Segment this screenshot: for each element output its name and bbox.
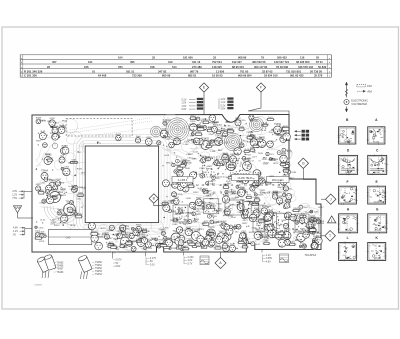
svg-text:4K72: 4K72 (156, 247, 162, 249)
wire from diamond B (154, 203, 167, 206)
transistor Q298 (39, 131, 46, 140)
svg-text:R333: R333 (260, 205, 266, 207)
IC module U2 outline (233, 159, 250, 174)
resistor R310 (207, 231, 215, 235)
capacitor C378 (287, 170, 297, 174)
resistor R317 (37, 190, 45, 194)
capacitor C338 (312, 232, 321, 235)
svg-text:R316: R316 (260, 231, 266, 233)
capacitor C384 (239, 178, 249, 182)
transistor Q362 (218, 231, 225, 239)
svg-text:TS47: TS47 (170, 220, 176, 222)
svg-text:8F195: 8F195 (345, 230, 350, 232)
transistor Q345 (178, 240, 184, 246)
transistor Q340 (179, 236, 185, 242)
transistor Q208 (272, 192, 278, 199)
svg-text:R344: R344 (285, 201, 291, 203)
svg-text:c: c (341, 130, 342, 132)
transistor Q72 (178, 207, 184, 213)
svg-text:C313: C313 (210, 239, 216, 241)
svg-text:e: e (370, 246, 371, 248)
resistor R329 (238, 126, 246, 130)
svg-text:C302: C302 (39, 227, 45, 229)
solder pad (279, 172, 280, 173)
svg-text:4K70: 4K70 (36, 184, 42, 186)
svg-text:G: G (376, 208, 379, 212)
resistor R342 (135, 239, 143, 243)
transistor case drawing group 2 (78, 255, 93, 279)
svg-text:C317: C317 (241, 141, 247, 143)
solder pad (117, 238, 118, 239)
svg-text:2n27: 2n27 (200, 201, 206, 203)
resistor R355 (238, 189, 247, 193)
transistor TS462 (243, 160, 252, 171)
svg-text:C327: C327 (55, 195, 61, 197)
svg-text:4.15V: 4.15V (188, 257, 194, 259)
svg-text:R314: R314 (45, 154, 51, 156)
svg-text:C317: C317 (263, 163, 269, 165)
svg-text:0L41: 0L41 (40, 220, 46, 222)
svg-text:4.6V: 4.6V (266, 261, 271, 263)
svg-text:5V: 5V (150, 261, 153, 263)
resistor R359 (282, 163, 291, 167)
svg-text:C314: C314 (168, 184, 174, 186)
svg-text:346 578 133: 346 578 133 (298, 65, 313, 69)
solder pad (187, 212, 188, 213)
svg-text:R314: R314 (48, 158, 54, 160)
table values row 3 (47, 65, 327, 69)
svg-text:T: T (329, 234, 331, 238)
transistor Q351 (242, 239, 247, 244)
transistor Q106 (264, 224, 270, 230)
resistor R340 (262, 241, 270, 245)
svg-text:2n27: 2n27 (190, 135, 196, 137)
transistor Q286 (62, 145, 69, 154)
resistor R332 (232, 225, 240, 229)
resistor R379 (171, 184, 178, 188)
svg-text:192 327: 192 327 (232, 60, 242, 64)
capacitor C344 (266, 152, 275, 156)
resistor R369 (202, 221, 211, 225)
IC module U9 outline (295, 214, 309, 232)
transistor Q3 (209, 115, 216, 122)
transistor Q214 (267, 224, 274, 231)
svg-text:TS455: TS455 (57, 263, 64, 265)
capacitor C369 (131, 227, 141, 230)
resistor R302 (205, 144, 213, 148)
svg-text:10p7: 10p7 (227, 183, 233, 185)
svg-text:G: G (302, 162, 305, 166)
wire from diamond E (203, 92, 205, 114)
transistor Q175 (249, 213, 257, 222)
capacitor C349 (156, 243, 166, 247)
svg-text:R326: R326 (190, 121, 196, 123)
capacitor C386 (206, 231, 216, 234)
svg-text:1.1V: 1.1V (266, 255, 271, 257)
svg-text:0.67V: 0.67V (116, 260, 122, 262)
svg-text:148 325: 148 325 (212, 65, 222, 69)
transistor Q277 (45, 189, 49, 193)
svg-text:4K73: 4K73 (100, 228, 106, 230)
solder pad (97, 142, 98, 143)
capacitor C336 (277, 151, 287, 155)
svg-text:C301: C301 (290, 242, 296, 244)
resistor R332 (292, 208, 301, 212)
transistor TS477 (309, 225, 317, 234)
wire from diamond T (321, 235, 325, 237)
svg-text:S189: S189 (216, 211, 222, 213)
transistor Q337 (135, 136, 141, 143)
svg-text:L300: L300 (70, 189, 76, 191)
resistor R382 (215, 234, 224, 238)
svg-text:752 534: 752 534 (212, 60, 222, 64)
transistor Q234 (88, 223, 93, 229)
svg-text:0.2V: 0.2V (221, 105, 226, 107)
solder pad (248, 208, 249, 209)
capacitor C349 (299, 245, 307, 248)
svg-text:0L49: 0L49 (278, 224, 284, 226)
capacitor C347 (188, 220, 198, 224)
resistor R362 (250, 202, 259, 206)
transistor Q375 (209, 239, 215, 246)
capacitor C386 (210, 220, 220, 224)
svg-text:L309: L309 (61, 188, 67, 190)
svg-text:R320: R320 (212, 216, 218, 218)
legend electronic voltmeter symbol (344, 98, 368, 106)
solder pad (224, 125, 225, 126)
solder pad (234, 176, 235, 177)
solder pad (110, 243, 111, 244)
svg-text:C308: C308 (257, 138, 263, 140)
svg-text:L308: L308 (187, 140, 193, 142)
svg-text:47K9: 47K9 (39, 241, 45, 243)
transistor Q311 (311, 241, 319, 250)
capacitor C383 (197, 201, 207, 204)
solder pad (169, 244, 170, 245)
transistor Q338 (116, 134, 122, 141)
svg-text:S185: S185 (173, 183, 179, 185)
svg-text:8F18: 8F18 (240, 210, 246, 212)
svg-text:S184: S184 (125, 229, 131, 231)
resistor R347 (252, 144, 261, 148)
solder pad (77, 151, 78, 152)
solder pad (181, 248, 182, 249)
solder pad (176, 179, 177, 180)
transistor TSL062 (192, 230, 201, 241)
solder pad (226, 121, 227, 122)
solder pad (192, 183, 193, 184)
solder pad (152, 245, 153, 246)
resistor R387 (175, 245, 182, 249)
svg-text:R318: R318 (216, 245, 222, 247)
svg-text:0L40: 0L40 (259, 235, 265, 237)
svg-text:C315: C315 (163, 228, 169, 230)
svg-text:S184: S184 (50, 118, 56, 120)
resistor R317 (194, 131, 203, 135)
transistor Q76 (276, 196, 283, 204)
svg-text:1.2V: 1.2V (188, 260, 193, 262)
resistor R308 (255, 138, 264, 142)
svg-text:64 468: 64 468 (98, 74, 107, 78)
resistor R346 (202, 120, 210, 124)
transistor Q360 (163, 239, 169, 245)
wire from diamond F (248, 92, 289, 114)
svg-text:F: F (260, 86, 262, 90)
svg-text:0L48: 0L48 (223, 211, 229, 213)
table row label column (21, 58, 331, 78)
svg-text:L301: L301 (184, 220, 190, 222)
svg-text:0L44: 0L44 (250, 213, 256, 215)
transistor Q274 (55, 179, 61, 186)
test point diamond T (325, 231, 336, 242)
svg-text:4K73: 4K73 (193, 126, 199, 128)
resistor R323 (124, 240, 133, 244)
svg-text:S184: S184 (56, 179, 62, 181)
svg-text:TS456: TS456 (57, 266, 64, 268)
solder pad (191, 139, 192, 140)
table values row 1 (118, 56, 319, 60)
resistor R353 (245, 195, 253, 199)
capacitor C333 (229, 225, 239, 229)
svg-text:C312: C312 (76, 199, 82, 201)
resistor R342 (227, 163, 236, 167)
svg-text:C303: C303 (52, 126, 58, 128)
resistor R321 (181, 246, 190, 250)
transistor Q126 (175, 175, 182, 183)
svg-text:C321: C321 (218, 138, 224, 140)
legend FM dashed box (357, 84, 372, 88)
connector pin block below diamond E (197, 98, 203, 110)
svg-text:88 95 015: 88 95 015 (232, 65, 244, 69)
svg-text:2n23: 2n23 (254, 204, 260, 206)
svg-text:C317: C317 (180, 163, 186, 165)
svg-text:TS450: TS450 (95, 262, 102, 264)
solder pad (152, 238, 153, 239)
svg-text:310: 310 (168, 60, 173, 64)
transistor Q373 (202, 238, 209, 246)
transistor Q257 (61, 213, 68, 222)
transistor Q237 (129, 233, 134, 238)
svg-text:47K4: 47K4 (233, 227, 239, 229)
svg-text:8C548: 8C548 (374, 201, 380, 203)
svg-text:R324: R324 (287, 151, 293, 153)
voltage bracket below board at x112 (112, 252, 122, 268)
svg-text:TS40: TS40 (81, 188, 87, 190)
svg-text:c: c (355, 159, 356, 161)
svg-text:J: J (330, 197, 332, 201)
resistor R381 (51, 195, 59, 199)
svg-text:S188: S188 (170, 200, 176, 202)
svg-text:347 82: 347 82 (158, 69, 167, 73)
svg-text:TS41: TS41 (246, 155, 252, 157)
solder pad (47, 178, 48, 179)
svg-text:TS43: TS43 (216, 204, 222, 206)
transistor Q284 (35, 231, 41, 237)
svg-text:8F16: 8F16 (70, 225, 76, 227)
capacitor C309 (282, 148, 292, 152)
solder pad (46, 195, 47, 196)
transistor Q168 (234, 148, 242, 156)
svg-text:1: 1 (331, 219, 333, 223)
transistor Q63 (278, 238, 286, 247)
svg-text:b: b (382, 189, 383, 191)
svg-text:R313: R313 (48, 121, 54, 123)
transistor Q384 (141, 236, 147, 244)
transistor Q56 (260, 177, 266, 183)
transistor Q11 (212, 126, 218, 132)
capacitor C388 (75, 213, 83, 216)
parts value table frame (20, 55, 331, 78)
component pinout square L (338, 236, 358, 261)
svg-text:2n27: 2n27 (209, 214, 215, 216)
svg-text:8F195: 8F195 (374, 258, 379, 260)
transistor Q294 (49, 118, 56, 126)
test point diamond G (298, 158, 308, 168)
svg-text:22n0: 22n0 (102, 233, 108, 235)
capacitor C385 (164, 236, 174, 240)
svg-text:5.7V: 5.7V (188, 263, 193, 265)
svg-text:341 16: 341 16 (192, 60, 201, 64)
svg-text:L306: L306 (210, 151, 216, 153)
transistor Q184 (285, 238, 291, 245)
capacitor C302 (202, 189, 212, 192)
svg-text:181 600: 181 600 (183, 56, 193, 60)
svg-text:L304: L304 (264, 124, 270, 126)
solder pad number strip 2 (206, 192, 286, 195)
svg-text:8C548: 8C548 (374, 141, 380, 143)
svg-text:4K75: 4K75 (282, 134, 288, 136)
svg-text:R310: R310 (39, 190, 45, 192)
solder pad (251, 131, 252, 132)
transistor Q240 (88, 223, 95, 230)
transistor TS470 (207, 227, 216, 238)
svg-text:TS453: TS453 (95, 271, 102, 273)
transistor Q160 (238, 188, 245, 197)
svg-text:495: 495 (130, 60, 135, 64)
svg-text:R333: R333 (284, 217, 290, 219)
svg-text:c: c (353, 130, 354, 132)
svg-text:1.6V: 1.6V (182, 106, 187, 108)
svg-text:11 656: 11 656 (216, 69, 225, 73)
svg-text:S180: S180 (291, 172, 297, 174)
svg-text:C309: C309 (260, 190, 266, 192)
capacitor C325 (155, 238, 165, 241)
svg-text:TS454: TS454 (95, 274, 102, 276)
transistor Q118 (162, 180, 169, 187)
svg-text:S185: S185 (279, 203, 285, 205)
resistor R333 (196, 126, 205, 130)
svg-text:22n4: 22n4 (209, 134, 215, 136)
transistor TS451 (258, 138, 266, 148)
test point diamond J (326, 194, 336, 204)
transistor TS472 (239, 233, 248, 243)
svg-text:R311: R311 (300, 228, 306, 230)
svg-text:R311: R311 (213, 124, 219, 126)
solder pad (251, 185, 252, 186)
voltage labels upper left group (12, 190, 32, 200)
svg-text:4K78: 4K78 (164, 203, 170, 205)
svg-text:303 117 82: 303 117 82 (254, 65, 268, 69)
table values row 5 capacitor list (24, 74, 323, 78)
transistor Q68 (189, 202, 195, 208)
svg-text:R323: R323 (54, 225, 60, 227)
svg-text:2n27: 2n27 (307, 227, 313, 229)
voltage labels lower left group (13, 227, 32, 237)
IC module U10 outline (308, 218, 319, 232)
svg-text:b: b (354, 246, 355, 248)
svg-text:47K5: 47K5 (289, 217, 295, 219)
svg-text:R343: R343 (222, 153, 228, 155)
svg-text:116: 116 (300, 56, 305, 60)
svg-text:R319: R319 (50, 133, 56, 135)
capacitor C301 (172, 163, 182, 167)
svg-text:2n29: 2n29 (164, 155, 170, 157)
solder pad (292, 228, 293, 229)
svg-text:CS0866: CS0866 (34, 285, 43, 287)
svg-text:R340: R340 (216, 130, 222, 132)
resistor R317 (187, 242, 196, 246)
transistor TS464 (41, 171, 49, 180)
resistor R360 (279, 162, 287, 166)
svg-text:C319: C319 (199, 168, 205, 170)
capacitor C318 (197, 124, 207, 127)
svg-text:4.2V: 4.2V (221, 99, 226, 101)
svg-text:C310: C310 (265, 182, 271, 184)
transistor Q7 (249, 135, 255, 141)
transistor Q327 (280, 154, 288, 163)
svg-text:19 36 93: 19 36 93 (212, 74, 223, 78)
transistor Q59 (177, 170, 183, 176)
transistor Q252 (36, 184, 42, 191)
svg-text:10p6: 10p6 (136, 136, 142, 138)
capacitor C326 (206, 182, 216, 186)
svg-text:1.0V: 1.0V (182, 103, 187, 105)
svg-text:S188: S188 (162, 129, 168, 131)
svg-text:C327: C327 (296, 218, 302, 220)
svg-text:e: e (370, 189, 371, 191)
solder pad (221, 130, 222, 131)
svg-text:47K5: 47K5 (207, 166, 213, 168)
transistor Q185 (171, 192, 176, 197)
svg-text:TS451: TS451 (95, 265, 102, 267)
solder pad (192, 118, 193, 119)
svg-text:5V: 5V (116, 263, 119, 265)
capacitor C323 (196, 117, 206, 121)
solder pad (246, 238, 247, 239)
transistor Q178 (222, 194, 229, 203)
resistor R344 (141, 228, 149, 232)
solder pad (279, 204, 280, 205)
transistor Q303 (302, 244, 306, 248)
capacitor C303 (74, 185, 84, 189)
svg-text:4K74: 4K74 (314, 242, 320, 244)
transistor TS455 (171, 231, 181, 243)
svg-text:TS460: TS460 (57, 272, 64, 274)
capacitor C315 (282, 193, 292, 197)
svg-text:VOLTMETER: VOLTMETER (351, 102, 367, 106)
solder pad (74, 175, 75, 176)
svg-text:10p9: 10p9 (107, 230, 113, 232)
svg-text:C317: C317 (288, 178, 294, 180)
boxed label 0-L456 (172, 177, 193, 183)
solder pad (116, 248, 117, 249)
transistor Q210 (221, 221, 227, 229)
svg-text:8F195: 8F195 (345, 141, 350, 143)
resistor R307 (222, 153, 230, 157)
IC module U7 outline (273, 214, 289, 238)
transistor Q171 (284, 162, 290, 168)
solder pad number strip 1 (196, 184, 286, 187)
